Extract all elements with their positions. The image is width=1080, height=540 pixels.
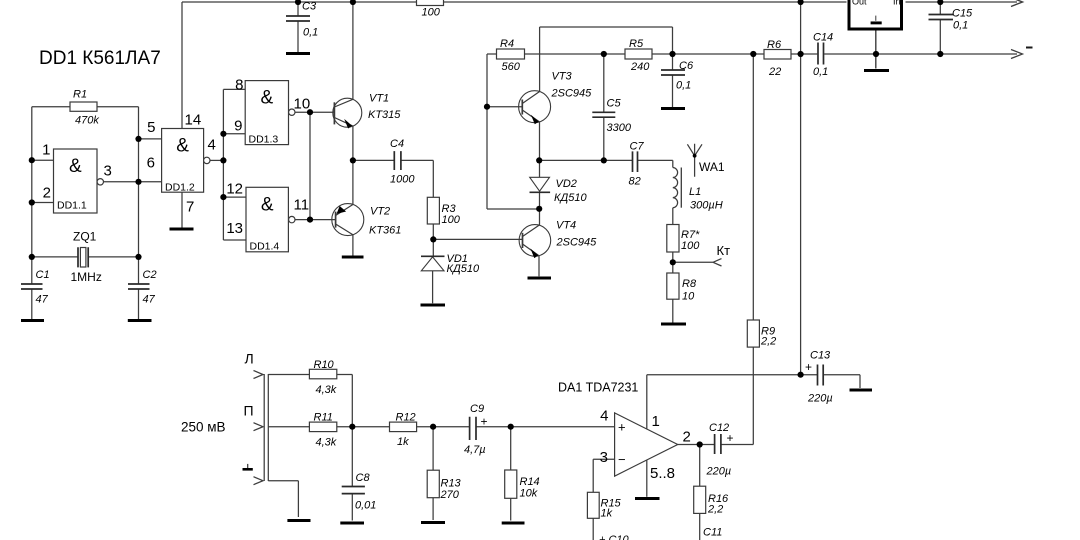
svg-text:R14: R14 xyxy=(520,476,540,488)
svg-text:DD1 К561ЛА7: DD1 К561ЛА7 xyxy=(39,48,161,69)
svg-text:КД510: КД510 xyxy=(554,192,587,204)
svg-text:DD1.2: DD1.2 xyxy=(165,182,195,194)
svg-text:1k: 1k xyxy=(397,436,409,448)
svg-text:1: 1 xyxy=(42,142,50,159)
svg-text:DA1 TDA7231: DA1 TDA7231 xyxy=(558,381,638,395)
svg-text:C11: C11 xyxy=(703,527,722,539)
svg-text:3: 3 xyxy=(600,449,608,466)
svg-text:560: 560 xyxy=(502,61,521,73)
svg-text:R11: R11 xyxy=(314,412,333,424)
svg-text:3: 3 xyxy=(104,163,112,180)
svg-text:П: П xyxy=(244,403,254,419)
svg-text:100: 100 xyxy=(422,7,441,19)
svg-text:14: 14 xyxy=(185,112,202,129)
svg-text:12: 12 xyxy=(226,181,243,198)
svg-text:Кт: Кт xyxy=(717,243,731,258)
svg-text:8: 8 xyxy=(235,77,243,94)
svg-text:VD2: VD2 xyxy=(556,178,577,190)
svg-text:C1: C1 xyxy=(36,269,50,281)
svg-text:C13: C13 xyxy=(810,350,831,362)
svg-text:47: 47 xyxy=(143,294,156,306)
svg-text:KT315: KT315 xyxy=(368,109,401,121)
svg-text:2,2: 2,2 xyxy=(707,504,723,516)
svg-text:6: 6 xyxy=(147,155,155,172)
svg-text:300µH: 300µH xyxy=(690,200,723,212)
svg-text:R4: R4 xyxy=(500,38,514,50)
svg-text:R5: R5 xyxy=(629,38,644,50)
svg-text:4: 4 xyxy=(208,137,216,154)
svg-text:+: + xyxy=(618,420,626,435)
svg-text:&: & xyxy=(261,88,274,109)
svg-text:1000: 1000 xyxy=(390,174,415,186)
svg-text:0,1: 0,1 xyxy=(676,80,691,92)
svg-text:C5: C5 xyxy=(607,98,622,110)
svg-text:0,1: 0,1 xyxy=(953,20,968,32)
svg-text:2SC945: 2SC945 xyxy=(551,88,593,100)
svg-text:VT4: VT4 xyxy=(556,220,576,232)
svg-text:WA1: WA1 xyxy=(699,160,725,174)
svg-text:L1: L1 xyxy=(689,186,701,198)
svg-text:100: 100 xyxy=(442,214,461,226)
svg-text:DD1.4: DD1.4 xyxy=(250,241,280,253)
svg-text:ZQ1: ZQ1 xyxy=(73,230,97,244)
svg-text:C4: C4 xyxy=(390,138,404,150)
svg-text:C2: C2 xyxy=(143,269,157,281)
svg-text:R6: R6 xyxy=(767,39,782,51)
svg-text:250 мВ: 250 мВ xyxy=(181,420,226,435)
svg-text:4,7µ: 4,7µ xyxy=(464,444,486,456)
svg-text:КД510: КД510 xyxy=(447,263,480,275)
svg-text:0,1: 0,1 xyxy=(303,27,318,39)
svg-text:+: + xyxy=(727,431,734,445)
svg-text:82: 82 xyxy=(629,176,641,188)
svg-text:5..8: 5..8 xyxy=(650,465,675,482)
svg-text:VT3: VT3 xyxy=(552,71,573,83)
svg-text:+ C10: + C10 xyxy=(599,534,630,540)
svg-text:220µ: 220µ xyxy=(706,466,732,478)
svg-text:7: 7 xyxy=(186,199,194,216)
svg-text:220µ: 220µ xyxy=(807,393,833,405)
svg-text:11: 11 xyxy=(294,197,310,214)
svg-text:470k: 470k xyxy=(75,115,99,127)
svg-text:0,01: 0,01 xyxy=(355,500,376,512)
svg-text:C9: C9 xyxy=(470,403,484,415)
svg-text:C3: C3 xyxy=(302,1,317,13)
svg-text:1: 1 xyxy=(652,413,660,430)
svg-text:C6: C6 xyxy=(679,60,694,72)
svg-text:0,1: 0,1 xyxy=(813,66,828,78)
svg-text:10: 10 xyxy=(294,96,311,113)
svg-text:1k: 1k xyxy=(601,508,613,520)
svg-text:KT361: KT361 xyxy=(369,225,401,237)
svg-text:5: 5 xyxy=(147,119,155,136)
svg-text:Л: Л xyxy=(245,351,254,367)
svg-text:4,3k: 4,3k xyxy=(316,437,337,449)
svg-text:100: 100 xyxy=(681,240,700,252)
svg-text:1MHz: 1MHz xyxy=(71,270,102,284)
svg-text:13: 13 xyxy=(226,220,243,237)
svg-text:240: 240 xyxy=(630,61,650,73)
svg-text:47: 47 xyxy=(36,294,49,306)
svg-text:4,3k: 4,3k xyxy=(316,384,337,396)
svg-text:C14: C14 xyxy=(813,32,833,44)
svg-text:10: 10 xyxy=(682,291,695,303)
svg-text:4: 4 xyxy=(600,408,608,425)
svg-text:R1: R1 xyxy=(73,89,87,101)
svg-text:Out: Out xyxy=(852,0,867,7)
svg-text:In: In xyxy=(893,0,901,7)
svg-text:270: 270 xyxy=(440,489,460,501)
svg-text:2: 2 xyxy=(683,429,691,446)
svg-text:R10: R10 xyxy=(314,359,335,371)
svg-text:&: & xyxy=(69,156,82,177)
svg-text:VT1: VT1 xyxy=(369,93,389,105)
svg-text:C8: C8 xyxy=(356,472,371,484)
svg-text:DD1.3: DD1.3 xyxy=(249,134,279,146)
svg-text:+: + xyxy=(481,415,488,429)
svg-text:C15: C15 xyxy=(952,8,973,20)
svg-text:2SC945: 2SC945 xyxy=(556,237,598,249)
svg-text:9: 9 xyxy=(234,118,242,135)
svg-text:C7: C7 xyxy=(630,141,645,153)
svg-text:&: & xyxy=(261,194,274,215)
svg-text:&: & xyxy=(176,136,189,157)
svg-text:3300: 3300 xyxy=(607,122,632,134)
svg-text:VT2: VT2 xyxy=(370,206,390,218)
svg-text:2: 2 xyxy=(43,185,51,202)
svg-text:DD1.1: DD1.1 xyxy=(57,200,87,212)
svg-text:R8: R8 xyxy=(682,278,697,290)
svg-text:2,2: 2,2 xyxy=(760,336,776,348)
svg-text:10k: 10k xyxy=(520,488,538,500)
svg-text:+: + xyxy=(805,360,812,374)
svg-text:R13: R13 xyxy=(441,478,462,490)
svg-text:R12: R12 xyxy=(396,412,416,424)
svg-text:−: − xyxy=(618,452,626,467)
svg-text:22: 22 xyxy=(768,66,781,78)
